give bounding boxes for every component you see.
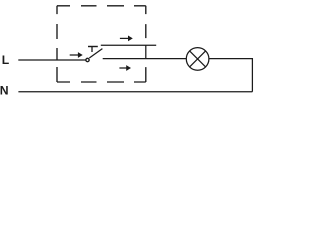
svg-text:N: N: [0, 84, 9, 98]
wire: N return line: [18, 91, 252, 93]
flow arrow A1 (into switch): [70, 52, 83, 58]
flow arrow A3 (bottom throw direction): [119, 65, 131, 71]
switch box (dashed enclosure) bottom edge: [57, 81, 146, 83]
lamp E1 bulb outline: [186, 48, 209, 71]
switch S1 top throw conductor: [101, 44, 156, 46]
switch S1 actuator crossbar: [88, 46, 98, 48]
switch box (dashed enclosure) top edge: [57, 5, 146, 7]
switch S1 pivot contact (common): [86, 58, 89, 61]
switch S1 actuator stem: [91, 47, 93, 52]
switch box (dashed enclosure) right edge: [145, 6, 147, 82]
switch S1 bottom throw conductor (lamp feed): [103, 58, 187, 60]
wire: lamp to right edge and down to N: [209, 59, 253, 92]
wire: L feed to switch common: [18, 59, 85, 61]
lamp E1 cross stroke 2: [190, 51, 206, 67]
switch S1 lever: [89, 49, 102, 58]
flow arrow A2 (top throw direction): [120, 36, 133, 42]
svg-text:L: L: [2, 53, 10, 67]
junction stub: top throw to lamp feed: [145, 45, 147, 58]
lamp E1 cross stroke 1: [190, 51, 206, 67]
switch box (dashed enclosure) left edge: [56, 6, 58, 82]
